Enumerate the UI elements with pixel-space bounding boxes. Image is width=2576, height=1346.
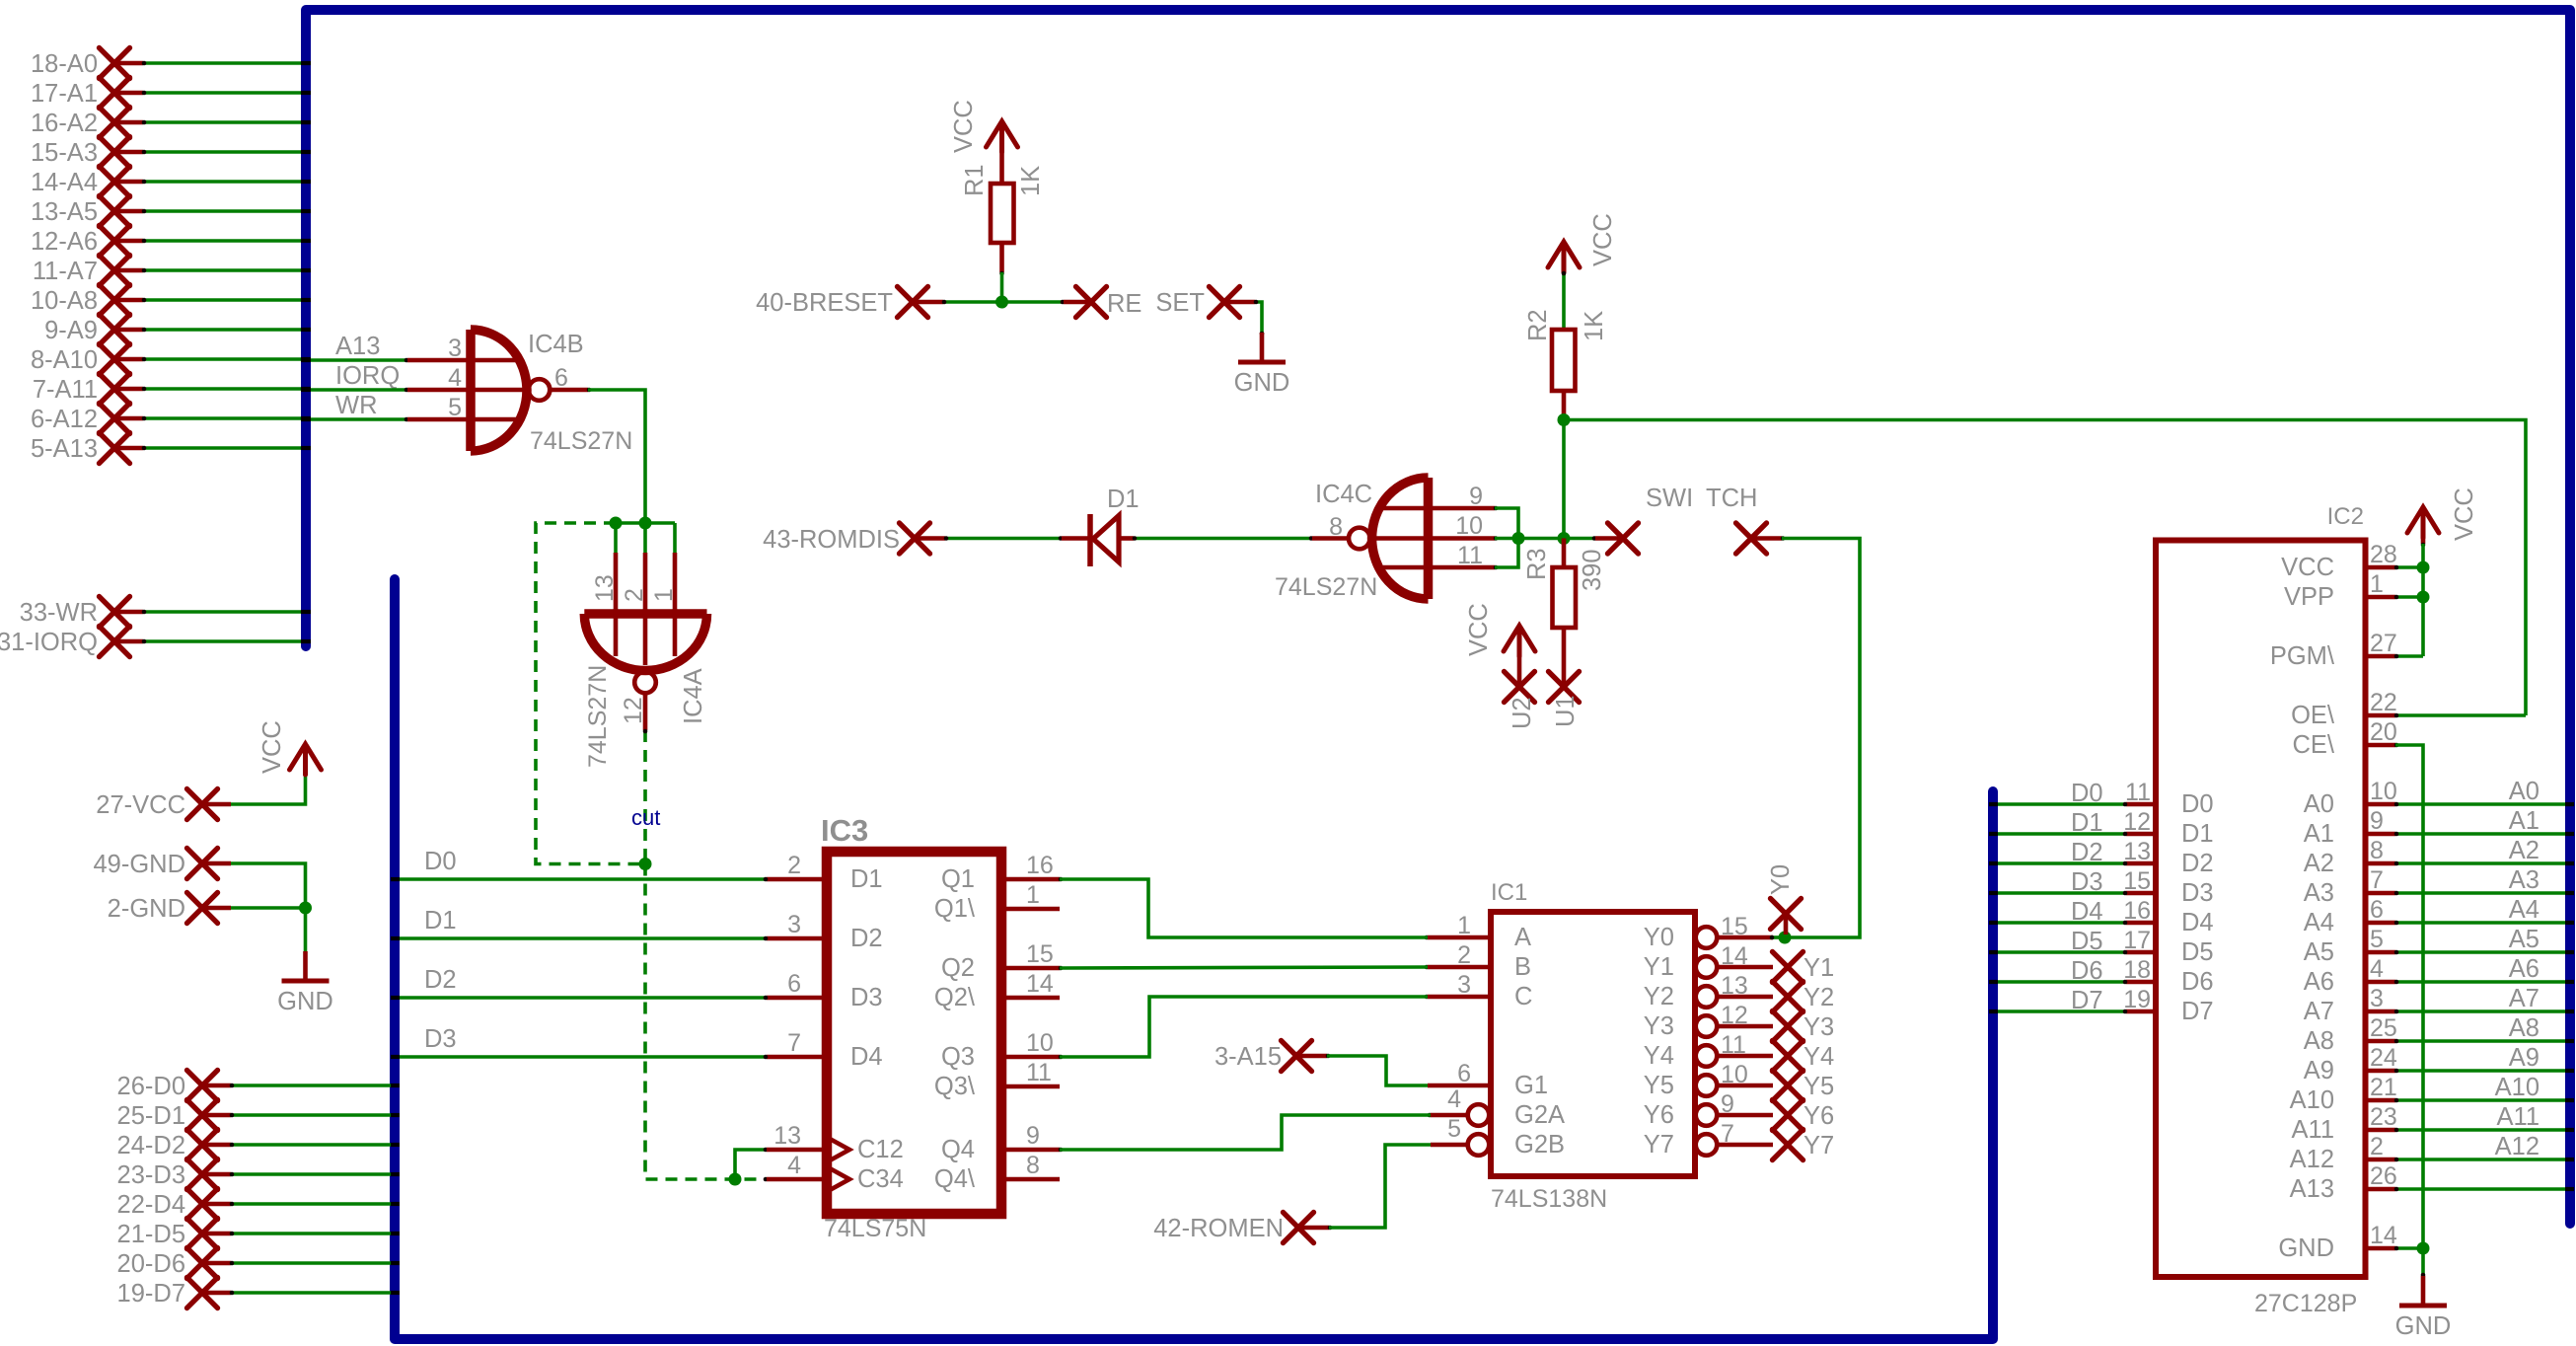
junction IC4A pin2: [639, 517, 652, 530]
IC2 pin 11 D0: [2126, 802, 2156, 807]
IC2 pin 19 D7: [2126, 1009, 2156, 1014]
IC2 pin 7 A3: [2366, 891, 2395, 896]
svg-text:15: 15: [1026, 940, 1054, 968]
svg-text:12: 12: [1721, 1002, 1748, 1029]
connector pad 13-A5: [31, 196, 311, 227]
IC1 pin 14 Y1: [1696, 956, 1718, 978]
svg-text:Y4: Y4: [1644, 1042, 1674, 1070]
svg-text:Y0: Y0: [1767, 864, 1795, 895]
svg-text:GND: GND: [1234, 369, 1290, 397]
svg-text:D2: D2: [2181, 850, 2214, 877]
connector pad Y1: [1773, 952, 1835, 983]
svg-text:CE\: CE\: [2292, 731, 2334, 759]
svg-text:7: 7: [787, 1029, 801, 1057]
svg-text:10-A8: 10-A8: [31, 287, 98, 315]
wire IC4C pins 9/11 loop: [1495, 508, 1518, 567]
svg-text:A0: A0: [2304, 790, 2334, 818]
wire junction to GND symbol: [2421, 1248, 2425, 1276]
IC2 pin 21 A10: [2366, 1098, 2395, 1103]
svg-text:GND: GND: [277, 988, 333, 1015]
IC2 pin 27 PGM\: [2366, 654, 2395, 659]
svg-text:3-A15: 3-A15: [1214, 1043, 1282, 1071]
connector pad Y6: [1773, 1100, 1835, 1131]
svg-text:Q3: Q3: [941, 1043, 975, 1071]
connector pad Y0: [1767, 864, 1802, 935]
IC3 pin 9 Q4: [1001, 1148, 1060, 1153]
connector pad Y2: [1773, 982, 1835, 1012]
svg-text:9: 9: [1721, 1090, 1734, 1118]
svg-text:D1: D1: [1107, 486, 1140, 513]
connector pad 7-A11: [33, 374, 311, 405]
IC3 pin 11 Q3\: [1001, 1084, 1060, 1089]
svg-text:2-GND: 2-GND: [108, 895, 185, 923]
VCC symbol: [290, 744, 322, 775]
svg-text:D2: D2: [424, 966, 457, 994]
wire IC4B pin6 to IC4A inputs: [588, 390, 645, 523]
connector pad 31-IORQ: [0, 627, 311, 657]
connector pad 24-D2: [117, 1130, 400, 1160]
svg-text:74LS27N: 74LS27N: [1275, 573, 1377, 601]
svg-text:3: 3: [787, 911, 801, 938]
svg-text:D4: D4: [850, 1043, 883, 1071]
wire IC1 Y0 to junction: [1771, 935, 1785, 939]
wire IC2 A1 to address bus: [2394, 807, 2574, 836]
connector pad 21-D5: [117, 1219, 400, 1249]
svg-text:A8: A8: [2509, 1014, 2539, 1042]
svg-text:R1: R1: [961, 164, 989, 196]
IC1 pin 6 G1: [1428, 1084, 1491, 1088]
wire 33-WR to bus: [143, 610, 302, 614]
wire 25-D1 to data bus: [231, 1113, 392, 1117]
junction GND pin14: [2417, 1242, 2430, 1255]
svg-text:D3: D3: [2181, 879, 2214, 907]
wire 26-D0 to data bus: [231, 1084, 392, 1087]
IC2 pin 24 A9: [2366, 1069, 2395, 1074]
svg-text:4: 4: [1447, 1085, 1461, 1113]
decoder IC1 74LS138N: [1428, 879, 1773, 1213]
svg-text:15-A3: 15-A3: [31, 139, 98, 167]
connector pad 17-A1: [31, 78, 311, 109]
junction R1 to RESET net: [995, 296, 1008, 309]
svg-text:49-GND: 49-GND: [93, 851, 185, 878]
svg-text:9: 9: [1469, 483, 1483, 510]
wire IC2 pin22 OE: [2395, 713, 2526, 717]
svg-text:21: 21: [2370, 1074, 2397, 1101]
svg-text:28: 28: [2370, 541, 2397, 568]
IC2 pin 13 D2: [2126, 861, 2156, 866]
svg-text:Y2: Y2: [1803, 984, 1834, 1011]
wire WR from bus to IC4B pin 5: [301, 392, 408, 421]
connector pad Y7: [1773, 1130, 1835, 1160]
IC3 pin 6 D3: [767, 996, 827, 1001]
svg-text:A13: A13: [2290, 1175, 2334, 1203]
svg-text:D2: D2: [850, 925, 883, 952]
IC3 pin 2 D1: [767, 877, 827, 882]
svg-text:22: 22: [2370, 689, 2397, 716]
svg-text:74LS138N: 74LS138N: [1491, 1185, 1607, 1213]
svg-text:D4: D4: [2181, 909, 2214, 936]
wire SET to GND: [1255, 302, 1262, 333]
svg-text:25-D1: 25-D1: [117, 1102, 185, 1130]
svg-text:A6: A6: [2509, 955, 2539, 983]
wire IC4A pin12 dashed down: [643, 730, 647, 864]
wire 40-BRESET to RE: [943, 300, 1064, 304]
svg-text:11: 11: [2125, 779, 2151, 806]
connector pad 8-A10: [31, 344, 311, 375]
IC2 pin 18 D6: [2126, 980, 2156, 985]
svg-text:24-D2: 24-D2: [117, 1132, 185, 1159]
IC4A pin 13: [614, 523, 618, 553]
svg-text:A10: A10: [2290, 1086, 2334, 1114]
IC3 pin 16 Q1: [1001, 877, 1060, 882]
svg-text:10: 10: [2370, 778, 2397, 805]
svg-text:4: 4: [2370, 955, 2384, 983]
wire D7 from data bus to IC2: [1989, 987, 2127, 1014]
IC2 pin 22 OE\: [2366, 713, 2395, 718]
svg-text:G1: G1: [1514, 1072, 1548, 1099]
svg-text:Y2: Y2: [1644, 983, 1674, 1010]
svg-text:21-D5: 21-D5: [117, 1221, 185, 1248]
D1 cathode bar: [1087, 514, 1093, 566]
wire junction to GND symbol: [304, 908, 308, 951]
svg-text:U2: U2: [1509, 697, 1536, 729]
switch pad SWI: [1595, 485, 1693, 554]
svg-text:1: 1: [1026, 881, 1040, 909]
svg-text:A7: A7: [2304, 998, 2334, 1025]
svg-text:D1: D1: [850, 865, 883, 893]
wire 19-D7 to data bus: [231, 1291, 392, 1295]
wire 16-A2 to bus: [143, 120, 302, 124]
junction Y0 net: [1779, 932, 1792, 944]
IC4B pin 5: [407, 417, 467, 422]
R3 lower pin: [1562, 628, 1567, 687]
connector pad SET: [1155, 287, 1289, 398]
svg-text:5: 5: [448, 394, 462, 421]
IC2 pin 5 A5: [2366, 950, 2395, 955]
IC3 pin 7 D4: [767, 1055, 827, 1060]
connector pad 6-A12: [31, 404, 311, 434]
NOR gate IC4C 74LS27N (mirrored): [1275, 478, 1495, 601]
R1 body: [991, 184, 1014, 243]
IC3 body: [827, 852, 1001, 1214]
IC4C output bubble: [1349, 528, 1370, 550]
svg-text:40-BRESET: 40-BRESET: [756, 289, 893, 317]
svg-text:A7: A7: [2509, 985, 2539, 1012]
IC1 pin 7 Y7: [1696, 1134, 1718, 1156]
D1 triangle: [1093, 516, 1119, 562]
wire IC2 A3 to address bus: [2394, 866, 2574, 895]
IC3 pin 15 Q2: [1001, 966, 1060, 971]
svg-text:74LS27N: 74LS27N: [584, 665, 612, 768]
svg-text:A1: A1: [2509, 807, 2539, 835]
svg-text:TCH: TCH: [1706, 485, 1757, 512]
IC3 pin 8 Q4\: [1001, 1177, 1060, 1182]
svg-text:16: 16: [1026, 852, 1054, 879]
svg-text:15: 15: [2123, 867, 2151, 895]
svg-text:D3: D3: [424, 1025, 457, 1053]
IC2 pin 12 D1: [2126, 832, 2156, 837]
svg-text:27-VCC: 27-VCC: [96, 791, 185, 819]
svg-text:33-WR: 33-WR: [20, 599, 98, 627]
svg-text:5: 5: [1447, 1115, 1461, 1143]
svg-text:A11: A11: [2292, 1116, 2334, 1144]
IC3 pin 4 C34: [767, 1177, 827, 1182]
junction VCC pin28: [2417, 561, 2430, 574]
IC2 pin 3 A7: [2366, 1009, 2395, 1014]
svg-text:B: B: [1514, 953, 1531, 981]
svg-text:C: C: [1514, 983, 1532, 1010]
svg-text:D6: D6: [2181, 968, 2214, 996]
IC3 pin 3 D2: [767, 936, 827, 941]
junction IC4C outputs: [1512, 532, 1525, 545]
svg-text:18-A0: 18-A0: [31, 50, 98, 78]
svg-text:7: 7: [2370, 866, 2384, 894]
svg-text:4: 4: [448, 364, 462, 392]
svg-text:VCC: VCC: [2281, 554, 2334, 581]
IC1 pin 2 B: [1428, 965, 1491, 970]
wire D6 from data bus to IC2: [1989, 957, 2127, 985]
svg-text:6: 6: [554, 364, 568, 392]
svg-text:13: 13: [1721, 972, 1748, 1000]
svg-text:Y1: Y1: [1644, 953, 1674, 981]
svg-text:74LS75N: 74LS75N: [824, 1215, 926, 1242]
connector pad 14-A4: [31, 167, 311, 197]
svg-text:13: 13: [2123, 838, 2151, 865]
IC2 pin 15 D3: [2126, 891, 2156, 896]
GND symbol: [277, 951, 333, 1015]
svg-text:12: 12: [620, 697, 647, 724]
IC2 pin 1 VPP: [2366, 595, 2395, 600]
wire IC2 pin28 to VCC: [2395, 565, 2423, 569]
wire IC3 Q2 to IC1 B: [1060, 967, 1428, 968]
svg-text:16: 16: [2123, 897, 2151, 925]
svg-text:26-D0: 26-D0: [117, 1073, 185, 1100]
IC1 body: [1491, 912, 1695, 1176]
NOR gate IC4A 74LS27N (rotated): [584, 523, 707, 768]
svg-text:A: A: [1514, 924, 1531, 951]
svg-text:4: 4: [787, 1152, 801, 1179]
IC4A pin 12 output: [643, 694, 648, 730]
IC2 pin 28 VCC: [2366, 565, 2395, 570]
wire D4 from data bus to IC2: [1989, 898, 2127, 926]
svg-text:31-IORQ: 31-IORQ: [0, 629, 98, 656]
wire 14-A4 to bus: [143, 180, 302, 184]
dashed wire down to C34 row: [645, 864, 760, 1180]
svg-text:cut: cut: [631, 805, 660, 830]
svg-text:1: 1: [650, 588, 678, 602]
wire IC2 A7 to address bus: [2394, 985, 2574, 1013]
junction dashed wire: [639, 858, 652, 870]
junction GND wires: [299, 902, 312, 915]
IC2 pin 2 A12: [2366, 1158, 2395, 1162]
junction at C34 wire: [729, 1173, 742, 1186]
svg-text:Y6: Y6: [1644, 1101, 1674, 1129]
connector pad 15-A3: [31, 137, 311, 168]
svg-text:VCC: VCC: [1589, 213, 1617, 266]
wire across IC4A input pins: [616, 521, 675, 525]
junction R2/OE net: [1558, 413, 1571, 426]
IC2 pin 4 A6: [2366, 980, 2395, 985]
resistor R3 390: [1523, 539, 1606, 688]
svg-text:IORQ: IORQ: [335, 362, 400, 390]
IC4A pin 2: [643, 523, 647, 553]
wire 10-A8 to bus: [143, 298, 302, 302]
wire D2 from data bus to IC2: [1989, 839, 2127, 866]
IC1 pin 4 G2A: [1431, 1113, 1467, 1118]
connector pad 16-A2: [31, 108, 311, 138]
svg-text:A3: A3: [2509, 866, 2539, 894]
svg-text:D7: D7: [2181, 998, 2214, 1025]
svg-text:2: 2: [2370, 1133, 2384, 1160]
connector pad Y5: [1773, 1071, 1835, 1101]
wire 18-A0 to bus: [143, 61, 302, 65]
IC2 pin 20 CE\: [2366, 743, 2395, 748]
VCC symbol at R1: [987, 121, 1018, 152]
svg-text:17: 17: [2123, 927, 2151, 954]
VCC symbol at R2: [1548, 242, 1580, 272]
svg-text:G2B: G2B: [1514, 1131, 1565, 1159]
resistor R1 1K with VCC: [950, 100, 1045, 302]
connector pad Y4: [1773, 1041, 1835, 1072]
svg-text:1K: 1K: [1017, 166, 1045, 196]
svg-text:Q1\: Q1\: [934, 895, 976, 923]
wire IC2 A10 to address bus: [2394, 1074, 2574, 1102]
IC2 pin 14 GND: [2366, 1246, 2395, 1251]
svg-text:A5: A5: [2509, 926, 2539, 953]
IC2 pin 8 A2: [2366, 861, 2395, 866]
wire 6-A12 to bus: [143, 416, 302, 420]
IC4C gate body: [1424, 478, 1434, 599]
svg-text:7-A11: 7-A11: [33, 376, 98, 404]
wire D3 from data bus to IC2: [1989, 868, 2127, 896]
wire 5-A13 to bus: [143, 446, 302, 450]
IC4A output bubble: [634, 672, 656, 694]
svg-text:42-ROMEN: 42-ROMEN: [1153, 1215, 1284, 1242]
wire 42-ROMEN to IC1 G2B: [1329, 1145, 1431, 1228]
svg-text:R3: R3: [1523, 548, 1551, 580]
wire IC3 Q1 to IC1 A: [1060, 879, 1428, 937]
wire 43-ROMDIS to D1: [945, 537, 1062, 541]
svg-text:Y3: Y3: [1644, 1012, 1674, 1040]
R2 lower pin: [1562, 391, 1567, 420]
switch pad TCH: [1706, 485, 1782, 554]
svg-text:20-D6: 20-D6: [117, 1250, 185, 1278]
connector pad 22-D4: [117, 1189, 400, 1220]
IC1 pin 3 C: [1428, 995, 1491, 1000]
wire 23-D3 to data bus: [231, 1172, 392, 1176]
svg-text:14: 14: [1721, 942, 1748, 970]
svg-text:VCC: VCC: [950, 100, 978, 153]
svg-text:Q4\: Q4\: [934, 1165, 976, 1193]
wire 31-IORQ to bus: [143, 639, 302, 643]
svg-text:25: 25: [2370, 1014, 2397, 1042]
svg-text:D1: D1: [2181, 820, 2214, 848]
svg-text:11: 11: [1457, 542, 1483, 569]
svg-text:Q1: Q1: [941, 865, 975, 893]
IC4C pin 9: [1433, 506, 1495, 511]
svg-text:A2: A2: [2509, 837, 2539, 864]
connector pad 19-D7: [117, 1278, 400, 1309]
NOR gate IC4B 74LS27N: [407, 330, 632, 455]
dashed wire (cut) from IC4A inputs loop: [536, 523, 645, 864]
svg-text:390: 390: [1579, 549, 1606, 591]
wire IC4C pin 10 to junction: [1495, 537, 1518, 541]
IC3 pin 10 Q3: [1001, 1055, 1060, 1060]
svg-text:D5: D5: [2181, 938, 2214, 966]
svg-text:8-A10: 8-A10: [31, 346, 98, 374]
wire 27-VCC to VCC symbol: [231, 776, 306, 804]
IC3 pin 13 C12: [767, 1148, 827, 1153]
connector pad 42-ROMEN: [1153, 1145, 1431, 1243]
IC2 pin 25 A8: [2366, 1039, 2395, 1044]
svg-text:3: 3: [2370, 985, 2384, 1012]
connector pad U1: [1549, 672, 1581, 728]
svg-text:OE\: OE\: [2291, 702, 2335, 729]
connector pad 2-GND: [108, 893, 306, 924]
IC4A gate body: [584, 609, 706, 619]
wire switch to Y0 junction: [1782, 539, 1860, 938]
wire IC2 A12 to address bus: [2394, 1133, 2574, 1161]
wire D3 from data bus to IC3: [391, 1025, 768, 1059]
connector pad 43-ROMDIS: [763, 523, 945, 554]
svg-text:A13: A13: [335, 333, 380, 360]
wire 49-GND to junction: [231, 863, 306, 908]
wire D5 from data bus to IC2: [1989, 928, 2127, 955]
svg-text:GND: GND: [2395, 1312, 2452, 1340]
wire IC2 pin27 PGM to VCC: [2395, 654, 2423, 658]
svg-text:10: 10: [1721, 1061, 1748, 1088]
svg-text:Y3: Y3: [1803, 1013, 1834, 1041]
svg-text:Q2\: Q2\: [934, 984, 976, 1011]
wire IC2 pin20 CE down to GND: [2395, 745, 2423, 1248]
bus: address/control bus (left vertical, top, right vertical): [306, 10, 2570, 1224]
IC4C pin 10: [1433, 536, 1495, 541]
svg-text:3: 3: [1457, 971, 1471, 999]
wire 12-A6 to bus: [143, 239, 302, 243]
svg-text:A10: A10: [2495, 1074, 2539, 1101]
IC4B pin 4: [407, 388, 467, 393]
svg-text:10: 10: [1026, 1029, 1054, 1057]
svg-text:12: 12: [2123, 808, 2151, 836]
svg-text:G2A: G2A: [1514, 1101, 1565, 1129]
IC1 pin 15 Y0: [1696, 927, 1718, 948]
connector pad 5-A13: [31, 433, 311, 464]
GND symbol at IC2: [2395, 1276, 2452, 1340]
svg-text:WR: WR: [335, 392, 377, 419]
wire 20-D6 to data bus: [231, 1261, 392, 1265]
connector pad 26-D0: [117, 1071, 400, 1101]
svg-text:13: 13: [591, 574, 619, 602]
IC3 pin 14 Q2\: [1001, 996, 1060, 1001]
wire 15-A3 to bus: [143, 150, 302, 154]
svg-text:9: 9: [1026, 1122, 1040, 1150]
svg-text:A0: A0: [2509, 778, 2539, 805]
wire A13 from bus to IC4B pin 3: [301, 333, 408, 362]
wire 17-A1 to bus: [143, 91, 302, 95]
svg-text:D1: D1: [424, 907, 457, 935]
wire VCC net at IC2: [2421, 544, 2425, 656]
svg-text:5-A13: 5-A13: [31, 435, 98, 463]
wire IC2 A9 to address bus: [2394, 1044, 2574, 1073]
svg-text:14-A4: 14-A4: [31, 169, 98, 196]
svg-text:A5: A5: [2304, 938, 2334, 966]
connector pad RE: [1064, 287, 1141, 319]
IC2 pin 17 D5: [2126, 950, 2156, 955]
wire IC2 A2 to address bus: [2394, 837, 2574, 865]
svg-text:A2: A2: [2304, 850, 2334, 877]
wire D2 from data bus to IC3: [391, 966, 768, 1000]
VCC symbol at U2: [1465, 603, 1535, 687]
